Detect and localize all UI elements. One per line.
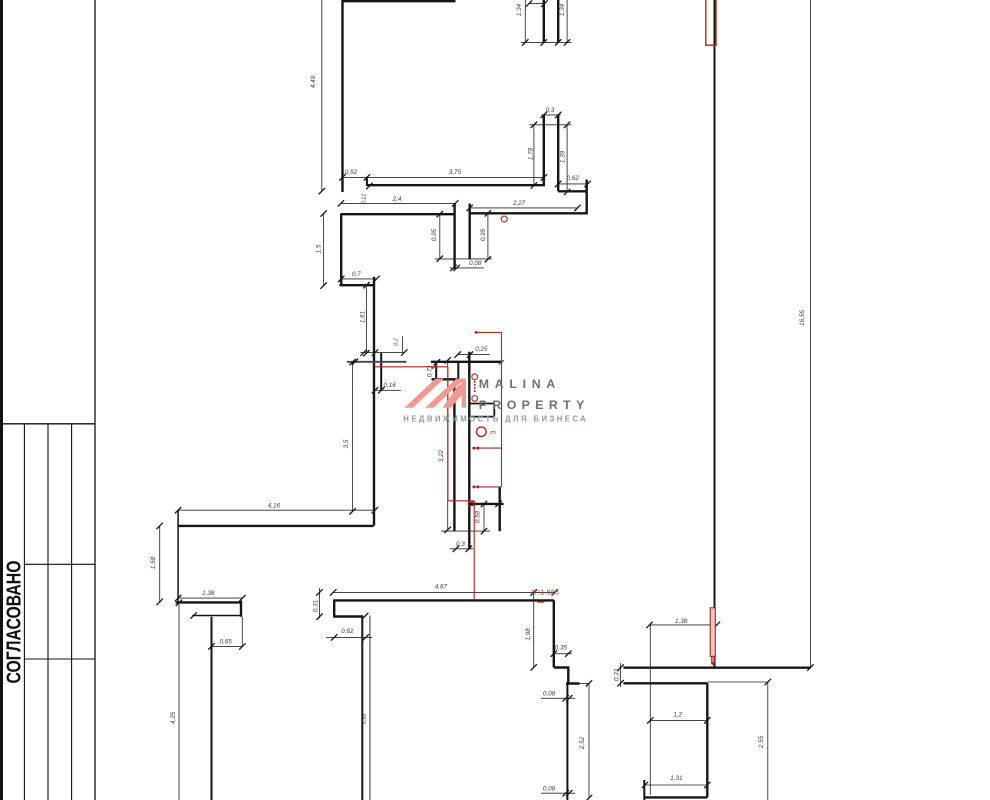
svg-text:1,98: 1,98: [525, 628, 532, 641]
svg-text:3,75: 3,75: [449, 169, 462, 176]
svg-text:1,34: 1,34: [516, 3, 523, 16]
svg-text:5,55: 5,55: [362, 713, 368, 724]
svg-text:0,08: 0,08: [469, 260, 482, 267]
svg-text:4,67: 4,67: [435, 584, 448, 591]
svg-text:0,2: 0,2: [394, 338, 400, 346]
svg-text:НЕДВИЖИМОСТЬ ДЛЯ БИЗНЕСА: НЕДВИЖИМОСТЬ ДЛЯ БИЗНЕСА: [403, 414, 586, 423]
svg-text:0,62: 0,62: [567, 175, 580, 182]
svg-text:1,61: 1,61: [360, 311, 367, 323]
svg-text:0,31: 0,31: [313, 600, 320, 612]
svg-text:4,49: 4,49: [310, 75, 317, 88]
svg-text:0,12: 0,12: [362, 194, 368, 205]
svg-text:1,39: 1,39: [560, 150, 567, 163]
svg-text:0,65: 0,65: [219, 639, 232, 646]
svg-text:2,27: 2,27: [512, 200, 526, 207]
svg-text:0,35: 0,35: [555, 645, 568, 652]
svg-text:4,35: 4,35: [170, 711, 177, 724]
svg-text:0,33: 0,33: [614, 668, 621, 681]
svg-text:0,58: 0,58: [475, 510, 482, 523]
svg-text:1,58: 1,58: [150, 556, 157, 569]
svg-text:3: 3: [491, 431, 498, 435]
svg-text:2,55: 2,55: [758, 735, 765, 749]
svg-text:0,08: 0,08: [543, 691, 556, 698]
svg-text:2,52: 2,52: [579, 736, 586, 750]
svg-text:1,78: 1,78: [528, 147, 535, 160]
svg-text:3,5: 3,5: [343, 439, 350, 448]
svg-text:0,08: 0,08: [543, 786, 556, 793]
svg-text:0,16: 0,16: [383, 382, 396, 389]
svg-text:1,38: 1,38: [202, 590, 215, 597]
svg-text:0,62: 0,62: [341, 628, 354, 635]
svg-text:3,22: 3,22: [438, 449, 445, 462]
svg-text:1,38: 1,38: [675, 618, 688, 625]
svg-text:0,95: 0,95: [480, 228, 487, 241]
svg-text:1,31: 1,31: [670, 775, 682, 782]
svg-text:1,5: 1,5: [316, 244, 323, 253]
svg-text:0,25: 0,25: [475, 346, 488, 353]
svg-text:h=1.685: h=1.685: [532, 588, 559, 597]
svg-text:0,95: 0,95: [431, 228, 438, 241]
svg-text:1,2: 1,2: [673, 712, 682, 719]
svg-text:0,3: 0,3: [546, 107, 555, 114]
svg-text:4,16: 4,16: [268, 503, 281, 510]
svg-text:1,34: 1,34: [559, 3, 566, 16]
svg-text:СОГЛАСОВАНО: СОГЛАСОВАНО: [3, 560, 26, 683]
svg-text:0,7: 0,7: [352, 271, 361, 278]
svg-text:2,4: 2,4: [392, 196, 402, 203]
svg-text:0,52: 0,52: [345, 169, 358, 176]
svg-text:16,56: 16,56: [799, 310, 806, 326]
svg-text:0,3: 0,3: [456, 541, 465, 548]
